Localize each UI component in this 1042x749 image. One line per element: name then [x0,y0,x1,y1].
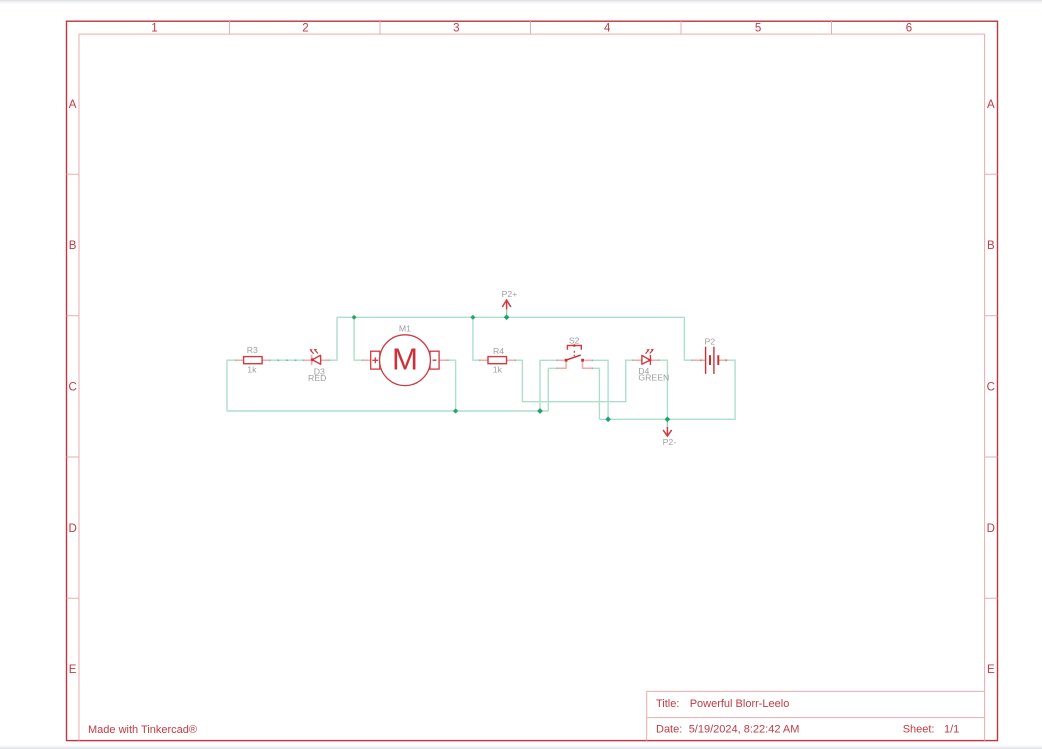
wire: P2+ stub [506,309,508,317]
net label P2+ [502,289,518,299]
resistor R3 label [247,345,258,355]
junction dot on top rail at motor branch [352,315,357,320]
svg-text:3: 3 [453,22,459,34]
LED D4 color label [638,373,669,383]
svg-text:P2: P2 [704,336,715,346]
resistor R4 pins [480,359,515,361]
wire: top rail [337,316,684,318]
svg-text:Title:: Title: [656,698,679,710]
row tick marks left [67,174,80,598]
junction diamond at S2 left on bottom rail [537,408,543,414]
LED D3 triangle [312,355,320,364]
row letters right [987,99,995,676]
wire: top rail down to battery plus [684,317,692,360]
svg-text:Powerful Blorr-Leelo: Powerful Blorr-Leelo [690,698,790,710]
svg-text:P2+: P2+ [502,289,518,299]
resistor R4 [488,357,507,364]
svg-text:1k: 1k [493,364,503,374]
LED D4 pins [633,359,659,361]
pushbutton S2 pins [557,360,592,368]
junction diamond at P2- stub [665,416,671,422]
wire: S2 top-left pin to bottom rail [540,360,557,411]
wire: P2- stub [666,419,668,427]
junction dot at motor minus on bottom rail [453,408,458,413]
resistor R3 [244,357,263,364]
svg-text:5/19/2024, 8:22:42 AM: 5/19/2024, 8:22:42 AM [689,724,800,736]
pushbutton S2 label [569,336,580,346]
battery P2 pins [692,359,727,361]
LED D4 label [638,366,649,376]
svg-text:4: 4 [604,22,611,34]
wire: lower rail y419 to battery minus [599,360,735,419]
svg-text:RED: RED [308,373,326,383]
svg-text:6: 6 [906,22,912,34]
svg-text:A: A [69,99,77,111]
title block text [656,698,959,736]
svg-text:S2: S2 [569,336,580,346]
wire: R3 right to D3 left [270,359,304,361]
net arrow P2+ [502,300,511,309]
wire: S2 top-right pin down to lower rail [592,360,608,419]
wire: bottom rail y411 [227,410,548,412]
svg-text:GREEN: GREEN [638,373,669,383]
wire: top rail down to R4 left [473,317,480,360]
svg-text:A: A [987,99,995,111]
svg-text:R4: R4 [493,346,504,356]
LED D3 label [314,367,325,377]
wire: R4 right via mid rail to D4 left [515,360,633,402]
svg-text:1/1: 1/1 [944,724,959,736]
junction diamond at P2+ stub [504,314,510,320]
wire: S2 lower-left pin to bottom rail [548,368,557,411]
svg-text:M1: M1 [399,323,411,333]
LED D4 triangle [642,355,652,364]
pushbutton S2 lever and contacts [565,355,584,361]
LED D4 cathode bar [649,355,651,365]
LED D3 emission arrows [310,349,318,354]
svg-text:P2-: P2- [663,437,677,447]
svg-text:Made with Tinkercad®: Made with Tinkercad® [88,724,197,736]
LED D3 color label [308,373,326,383]
svg-text:5: 5 [755,22,761,34]
resistor R3 value 1k [247,364,257,374]
junction dot on top rail at R4 branch [470,315,475,320]
wire: left loop from R3 left down to bottom rail [227,360,236,411]
svg-text:E: E [987,664,995,676]
battery P2 plates [706,347,719,374]
row tick marks right [985,174,998,598]
wire: S2 lower-right pin down to lower rail [592,368,599,419]
svg-text:B: B [987,240,995,252]
wire: D3 right up to top rail [329,317,337,360]
wire: motor minus down to bottom rail [448,360,456,411]
svg-text:M: M [392,342,418,376]
motor M1 body [371,335,439,386]
wire: top rail down to motor plus [354,317,363,360]
column tick marks [230,21,832,34]
resistor R3 pins [236,359,270,361]
svg-text:Sheet:: Sheet: [903,724,935,736]
wire segment nubs between R3 and D3 [235,359,727,369]
LED D3 pins [304,359,329,361]
net arrow P2- [663,427,672,436]
svg-text:Date:: Date: [656,724,682,736]
svg-text:1k: 1k [247,364,257,374]
resistor R4 label [493,346,504,356]
net label P2- [663,437,677,447]
battery P2 label [704,336,715,346]
svg-text:C: C [987,382,995,394]
motor M1 label [399,323,411,333]
motor M1 pins [363,359,448,361]
title block box [647,691,985,740]
svg-text:B: B [69,240,77,252]
column numbers [151,22,912,34]
svg-text:1: 1 [151,22,157,34]
LED D3 cathode bar [311,355,314,365]
LED D4 emission arrows [646,349,654,354]
wire: D4 right down to lower rail [659,360,668,419]
svg-text:R3: R3 [247,345,258,355]
row letters left [68,99,76,676]
resistor R4 value 1k [493,364,503,374]
pushbutton S2 actuator [567,346,581,357]
svg-text:E: E [69,664,77,676]
svg-text:C: C [68,382,76,394]
svg-text:D: D [987,523,995,535]
svg-text:D: D [68,523,76,535]
svg-text:2: 2 [302,22,308,34]
footer: Made with Tinkercad [88,724,197,736]
junction diamond at S2 right on lower rail [605,416,611,422]
